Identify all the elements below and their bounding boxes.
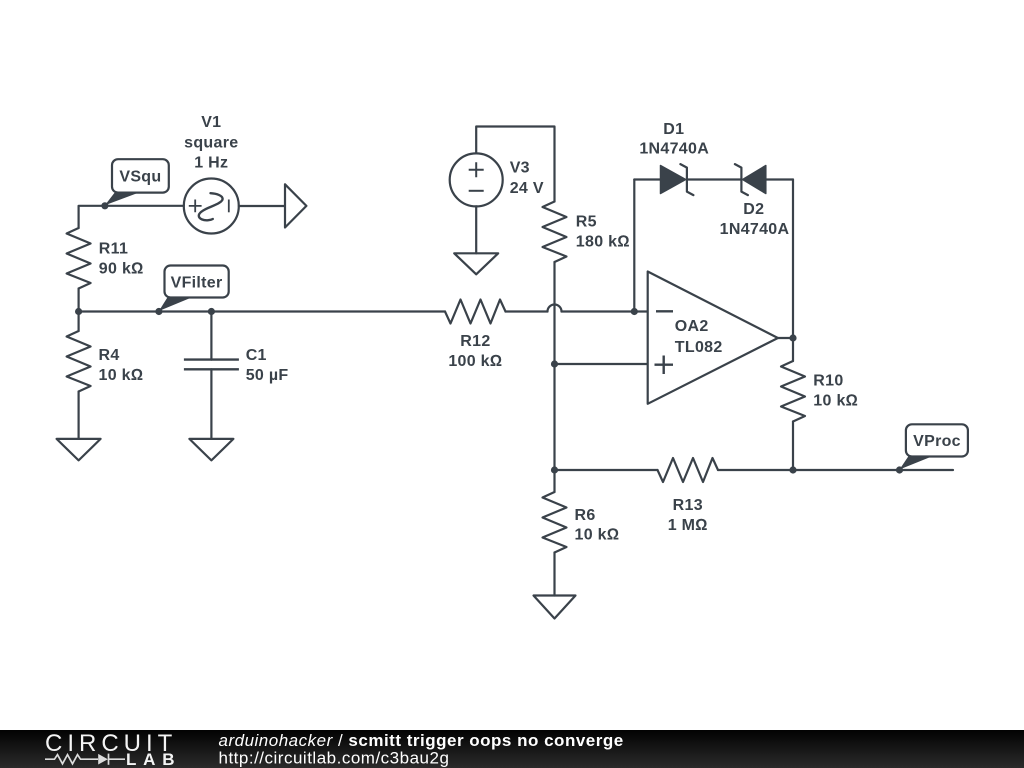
label R10 value <box>813 373 858 410</box>
op-amp OA2 <box>648 272 778 404</box>
resistor R12 <box>445 300 506 324</box>
label D2 value <box>720 201 790 238</box>
svg-text:OA2: OA2 <box>675 318 709 335</box>
wire between D1 and D2 <box>687 178 741 180</box>
svg-text:R10: R10 <box>813 373 843 390</box>
wire R4 to ground <box>77 392 79 439</box>
svg-text:1 MΩ: 1 MΩ <box>668 517 708 534</box>
flag VFilter <box>159 266 229 312</box>
wire hop to op-amp minus input <box>562 310 648 312</box>
svg-text:24 V: 24 V <box>510 180 544 197</box>
svg-text:90 kΩ: 90 kΩ <box>99 261 144 278</box>
svg-text:V3: V3 <box>510 160 530 177</box>
label C1 value <box>246 347 289 384</box>
junction node R11/R4 <box>75 308 82 315</box>
svg-text:TL082: TL082 <box>675 339 723 356</box>
wire bottom row right <box>718 469 953 471</box>
junction node VFilter <box>155 308 162 315</box>
resistor R10 <box>781 361 805 422</box>
wire op-amp output stub <box>778 337 793 339</box>
wire V1 to output arrow <box>239 205 285 207</box>
label R11 value <box>99 241 144 278</box>
voltage source V3 <box>450 153 503 206</box>
label V1 value <box>184 114 238 172</box>
svg-text:100 kΩ: 100 kΩ <box>448 353 502 370</box>
svg-text:10 kΩ: 10 kΩ <box>813 393 858 410</box>
wire minus node up to zener feedback <box>633 180 635 312</box>
svg-text:VSqu: VSqu <box>119 169 161 186</box>
capacitor C1 <box>184 312 239 439</box>
wire R6 to ground <box>553 553 555 596</box>
wire V3 to ground <box>475 206 477 253</box>
wire bottom row left <box>555 469 658 471</box>
wire VSqu node left corner down to R11 <box>79 206 105 228</box>
resistor R4 <box>67 331 91 392</box>
wire R11 to VFilter row <box>77 289 79 312</box>
label OA2 value <box>675 318 723 356</box>
wire hop over vertical net <box>548 305 562 312</box>
svg-text:LAB: LAB <box>126 750 181 768</box>
wire right vertical down to output node <box>792 180 794 339</box>
junction node output <box>789 334 796 341</box>
footer bar <box>0 730 1024 768</box>
resistor R6 <box>543 492 567 553</box>
svg-text:1N4740A: 1N4740A <box>639 141 709 158</box>
wire R5 down to plus node <box>553 262 555 364</box>
wire VFilter row <box>79 310 445 312</box>
wire zener row right <box>766 178 793 180</box>
label V3 value <box>510 160 544 198</box>
wire VSqu node to V1 <box>105 205 184 207</box>
junction node VSqu <box>101 202 108 209</box>
svg-text:VProc: VProc <box>913 433 961 450</box>
label D1 value <box>639 121 709 158</box>
svg-text:square: square <box>184 134 238 151</box>
label R6 value <box>575 507 620 544</box>
ground under V3 <box>454 253 498 274</box>
svg-text:R11: R11 <box>99 241 128 258</box>
label R5 value <box>576 214 630 251</box>
wire plus node to op-amp <box>555 363 648 365</box>
junction node plus input <box>551 360 558 367</box>
junction node R10/R13 <box>789 466 796 473</box>
svg-text:V1: V1 <box>201 114 221 131</box>
zener diode D1 <box>661 164 694 195</box>
svg-text:arduinohacker / scmitt trigger: arduinohacker / scmitt trigger oops no c… <box>219 731 624 750</box>
wire R6 top <box>553 470 555 492</box>
voltage source V1 (square 1 Hz) <box>184 179 239 234</box>
svg-text:1N4740A: 1N4740A <box>720 221 790 238</box>
ground under R6 <box>534 596 576 619</box>
svg-text:VFilter: VFilter <box>171 274 223 291</box>
junction node bottom left <box>551 466 558 473</box>
wire V3 top loop to R5 <box>476 127 554 202</box>
svg-text:R6: R6 <box>575 507 596 524</box>
ground under C1 <box>189 439 233 461</box>
svg-text:http://circuitlab.com/c3bau2g: http://circuitlab.com/c3bau2g <box>219 749 450 768</box>
output arrow terminal <box>285 184 306 227</box>
svg-text:10 kΩ: 10 kΩ <box>575 527 620 544</box>
svg-text:R5: R5 <box>576 214 597 231</box>
wire R12 to hop <box>506 310 548 312</box>
CircuitLab logo resistor-diode glyph <box>45 754 125 765</box>
svg-text:C1: C1 <box>246 347 267 364</box>
resistor R5 <box>543 202 567 263</box>
label R13 value <box>668 497 708 534</box>
resistor R13 <box>658 458 719 482</box>
svg-text:R12: R12 <box>460 333 490 350</box>
svg-text:50 µF: 50 µF <box>246 367 289 384</box>
flag VProc <box>900 424 968 469</box>
svg-text:D1: D1 <box>663 121 684 138</box>
wire plus node down to bottom row <box>553 364 555 470</box>
zener diode D2 <box>735 164 766 195</box>
junction node VProc <box>896 466 903 473</box>
svg-text:D2: D2 <box>743 201 764 218</box>
svg-text:R4: R4 <box>99 347 120 364</box>
resistor R11 <box>67 228 91 289</box>
wire R4 top <box>77 312 79 332</box>
junction node minus input <box>631 308 638 315</box>
svg-text:180 kΩ: 180 kΩ <box>576 234 630 251</box>
wire R10 to bottom row <box>792 422 794 471</box>
flag VSqu <box>105 159 169 205</box>
wire output down to R10 <box>792 338 794 361</box>
svg-text:10 kΩ: 10 kΩ <box>99 367 144 384</box>
svg-text:1 Hz: 1 Hz <box>194 155 228 172</box>
wire zener row left <box>634 178 660 180</box>
label R12 value <box>448 333 502 370</box>
junction node C1 <box>208 308 215 315</box>
svg-text:R13: R13 <box>673 497 703 514</box>
label R4 value <box>99 347 144 384</box>
ground under R4 <box>57 439 101 461</box>
